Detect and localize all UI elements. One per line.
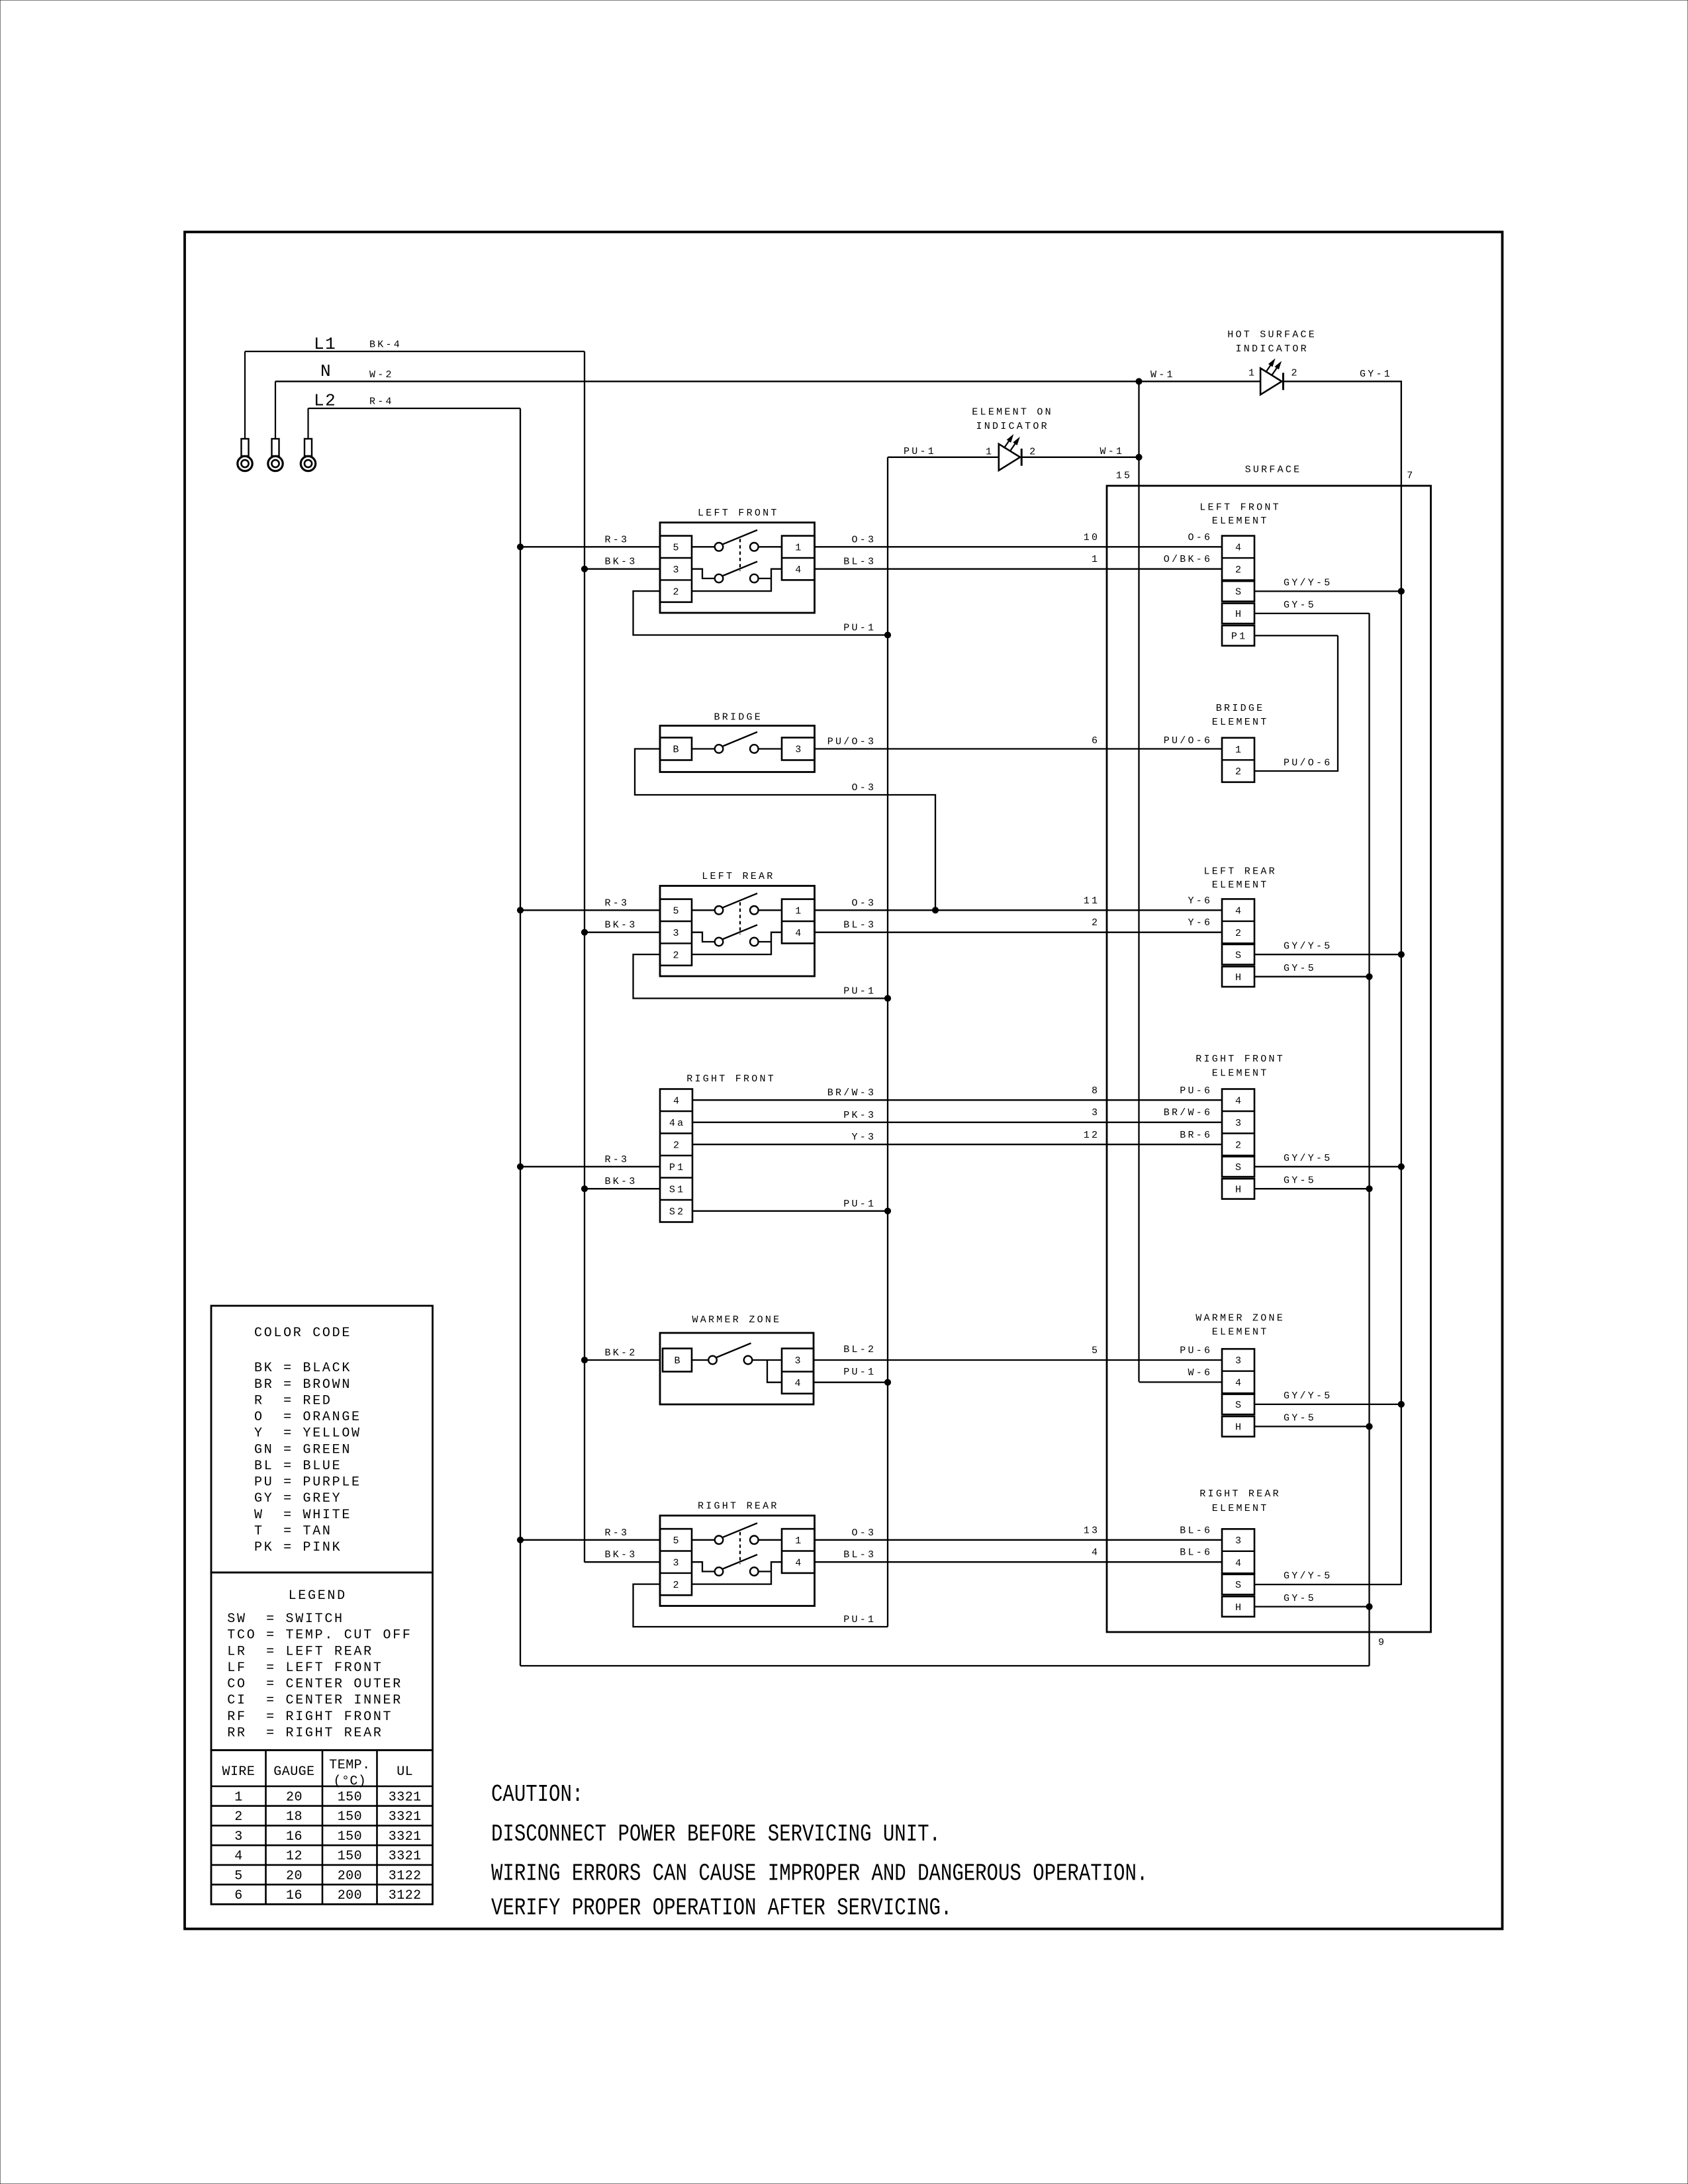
svg-text:UL: UL bbox=[397, 1764, 413, 1780]
bus PU-1 vertical bbox=[887, 457, 888, 1627]
svg-text:18: 18 bbox=[286, 1809, 303, 1825]
svg-text:11: 11 bbox=[1084, 895, 1100, 907]
switch LEFT FRONT body bbox=[660, 523, 815, 614]
junction GY/Y bus / LR S bbox=[1398, 952, 1404, 958]
junction GY/Y bus / RF S bbox=[1398, 1163, 1404, 1169]
svg-text:20: 20 bbox=[286, 1868, 303, 1884]
switch LEFT FRONT mechanical link bbox=[739, 539, 741, 570]
svg-text:RIGHT REAR: RIGHT REAR bbox=[698, 1501, 779, 1512]
svg-text:GY-5: GY-5 bbox=[1284, 963, 1316, 974]
element WARMER ZONE terminal S bbox=[1222, 1394, 1254, 1415]
svg-text:1: 1 bbox=[795, 543, 803, 554]
svg-text:5: 5 bbox=[673, 543, 681, 554]
svg-text:ELEMENT: ELEMENT bbox=[1212, 516, 1269, 527]
svg-text:W-1: W-1 bbox=[1100, 446, 1125, 457]
junction R bus / RIGHT REAR bbox=[517, 1537, 523, 1543]
svg-text:4: 4 bbox=[1092, 1547, 1100, 1559]
svg-text:S: S bbox=[1235, 950, 1243, 961]
element RIGHT REAR terminal S bbox=[1222, 1574, 1254, 1595]
bus BK-4 vertical (L1) bbox=[584, 351, 585, 1563]
svg-text:P1: P1 bbox=[1231, 631, 1248, 643]
svg-text:SW = SWITCH: SW = SWITCH bbox=[227, 1612, 344, 1627]
svg-text:R = RED: R = RED bbox=[254, 1394, 332, 1409]
svg-text:O-3: O-3 bbox=[852, 897, 876, 909]
svg-text:12: 12 bbox=[1084, 1130, 1100, 1141]
page border frame bbox=[185, 232, 1503, 1929]
svg-text:3122: 3122 bbox=[389, 1868, 422, 1884]
svg-text:S1: S1 bbox=[669, 1185, 686, 1196]
svg-text:O = ORANGE: O = ORANGE bbox=[254, 1410, 361, 1425]
svg-text:12: 12 bbox=[286, 1849, 303, 1864]
svg-text:16: 16 bbox=[286, 1829, 303, 1844]
switch LEFT FRONT terminals 5/3/2 bbox=[660, 536, 692, 602]
junction R bus / LEFT FRONT bbox=[517, 544, 523, 550]
svg-text:B: B bbox=[675, 1355, 682, 1367]
svg-text:200: 200 bbox=[338, 1868, 362, 1884]
svg-text:S: S bbox=[1235, 587, 1243, 598]
junction BK bus / LEFT REAR bbox=[581, 929, 587, 935]
svg-text:O-6: O-6 bbox=[1188, 532, 1213, 543]
svg-text:ELEMENT: ELEMENT bbox=[1212, 880, 1269, 891]
svg-text:HOT SURFACE: HOT SURFACE bbox=[1227, 330, 1317, 341]
svg-text:RF = RIGHT FRONT: RF = RIGHT FRONT bbox=[227, 1709, 393, 1725]
svg-text:R-3: R-3 bbox=[605, 1154, 630, 1165]
svg-text:PU-1: PU-1 bbox=[904, 446, 936, 457]
svg-text:PK-3: PK-3 bbox=[843, 1110, 876, 1121]
svg-text:6: 6 bbox=[234, 1888, 242, 1903]
svg-text:DISCONNECT POWER BEFORE SERVIC: DISCONNECT POWER BEFORE SERVICING UNIT. bbox=[491, 1821, 941, 1848]
svg-text:PU/O-6: PU/O-6 bbox=[1284, 758, 1333, 769]
svg-text:VERIFY PROPER OPERATION AFTER: VERIFY PROPER OPERATION AFTER SERVICING. bbox=[491, 1895, 952, 1922]
element WARMER ZONE numbered terminal block bbox=[1222, 1349, 1254, 1393]
element RIGHT REAR numbered terminal block bbox=[1222, 1529, 1254, 1573]
switch LEFT FRONT pole 1 contacts bbox=[692, 546, 715, 547]
svg-text:RR = RIGHT REAR: RR = RIGHT REAR bbox=[227, 1725, 383, 1741]
svg-text:P1: P1 bbox=[669, 1162, 686, 1173]
svg-text:3: 3 bbox=[1235, 1355, 1243, 1367]
svg-text:10: 10 bbox=[1084, 532, 1100, 543]
junction GY/Y bus / LF S bbox=[1398, 588, 1404, 594]
svg-text:2: 2 bbox=[1235, 1140, 1243, 1152]
svg-text:T = TAN: T = TAN bbox=[254, 1524, 332, 1539]
svg-text:O-3: O-3 bbox=[852, 782, 876, 794]
svg-text:4a: 4a bbox=[669, 1118, 686, 1129]
element LEFT FRONT numbered terminal block bbox=[1222, 536, 1254, 580]
junction R bus / LEFT REAR bbox=[517, 907, 523, 913]
bus GY-5 vertical bbox=[1368, 614, 1370, 1666]
svg-text:RIGHT FRONT: RIGHT FRONT bbox=[1196, 1054, 1285, 1065]
svg-text:150: 150 bbox=[338, 1849, 362, 1864]
svg-text:9: 9 bbox=[1378, 1637, 1386, 1649]
switch RIGHT REAR body bbox=[660, 1516, 815, 1606]
svg-text:ELEMENT: ELEMENT bbox=[1212, 717, 1269, 728]
svg-text:BK-4: BK-4 bbox=[369, 340, 402, 351]
switch WARMER ZONE body bbox=[660, 1333, 814, 1404]
switch BRIDGE terminal 3 bbox=[782, 738, 815, 760]
svg-text:2: 2 bbox=[673, 586, 681, 598]
svg-text:PU/O-3: PU/O-3 bbox=[827, 737, 876, 748]
svg-text:4: 4 bbox=[795, 565, 803, 576]
svg-text:3321: 3321 bbox=[389, 1809, 422, 1825]
svg-text:TEMP.: TEMP. bbox=[329, 1758, 370, 1773]
svg-text:3: 3 bbox=[795, 745, 803, 756]
wire PU-1 from bus to element-on LED bbox=[888, 457, 999, 458]
svg-text:INDICATOR: INDICATOR bbox=[976, 421, 1049, 432]
svg-text:Y-6: Y-6 bbox=[1188, 895, 1213, 907]
svg-text:R-3: R-3 bbox=[605, 1527, 630, 1539]
svg-text:W-6: W-6 bbox=[1188, 1367, 1213, 1379]
svg-text:O-3: O-3 bbox=[852, 1527, 876, 1539]
element BRIDGE numbered terminal block bbox=[1222, 738, 1254, 782]
svg-text:3: 3 bbox=[1092, 1107, 1100, 1118]
junction PU-1 bus / LEFT REAR bbox=[884, 995, 890, 1001]
svg-text:GY-5: GY-5 bbox=[1284, 1593, 1316, 1604]
wire gauge table bbox=[211, 1751, 433, 1905]
svg-text:2: 2 bbox=[1092, 917, 1100, 929]
wire W-1 from LED to W-1 bus bbox=[1021, 457, 1139, 458]
svg-text:R-3: R-3 bbox=[605, 897, 630, 909]
svg-text:S: S bbox=[1235, 1162, 1243, 1173]
svg-text:GY = GREY: GY = GREY bbox=[254, 1491, 342, 1506]
switch LEFT REAR terminals 5/3/2 bbox=[660, 899, 692, 966]
svg-text:4: 4 bbox=[1235, 1378, 1243, 1389]
svg-text:R-4: R-4 bbox=[369, 396, 394, 408]
svg-text:2: 2 bbox=[1235, 928, 1243, 939]
svg-text:ELEMENT ON: ELEMENT ON bbox=[972, 407, 1053, 418]
svg-text:4: 4 bbox=[1235, 1096, 1243, 1107]
svg-text:H: H bbox=[1235, 1185, 1243, 1196]
svg-text:6: 6 bbox=[1092, 735, 1100, 747]
terminal L2 ring lug bbox=[307, 408, 308, 439]
svg-text:BL-3: BL-3 bbox=[843, 1549, 876, 1561]
svg-text:BK-3: BK-3 bbox=[605, 1549, 637, 1561]
switch BRIDGE contacts bbox=[692, 748, 715, 749]
svg-text:BK = BLACK: BK = BLACK bbox=[254, 1361, 352, 1376]
switch LEFT FRONT terminal 2/4 link bbox=[692, 569, 782, 591]
junction GY-5 bus / WZ H bbox=[1366, 1424, 1372, 1430]
switch RIGHT REAR terminal 2/4 link bbox=[692, 1562, 782, 1584]
svg-text:W-1: W-1 bbox=[1150, 369, 1175, 381]
junction W-1/element-on bbox=[1136, 454, 1142, 460]
svg-text:2: 2 bbox=[673, 950, 681, 961]
element LEFT FRONT terminal S bbox=[1222, 581, 1254, 602]
svg-text:S: S bbox=[1235, 1580, 1243, 1591]
svg-text:BK-3: BK-3 bbox=[605, 1176, 637, 1187]
svg-text:CAUTION:: CAUTION: bbox=[491, 1781, 583, 1808]
svg-text:2: 2 bbox=[673, 1580, 681, 1591]
svg-text:5: 5 bbox=[673, 1535, 681, 1547]
svg-text:3: 3 bbox=[1235, 1535, 1243, 1547]
svg-text:200: 200 bbox=[338, 1888, 362, 1903]
svg-text:PU-1: PU-1 bbox=[843, 1367, 876, 1378]
svg-text:PU-6: PU-6 bbox=[1180, 1085, 1212, 1097]
svg-text:BR-6: BR-6 bbox=[1180, 1130, 1212, 1141]
switch LEFT REAR terminal 2/4 link bbox=[692, 933, 782, 954]
svg-text:3122: 3122 bbox=[389, 1888, 422, 1903]
element LEFT FRONT terminal P1 bbox=[1222, 625, 1254, 646]
svg-text:PU-6: PU-6 bbox=[1180, 1345, 1212, 1357]
svg-text:W = WHITE: W = WHITE bbox=[254, 1508, 352, 1523]
svg-text:WIRING ERRORS CAN CAUSE IMPROP: WIRING ERRORS CAN CAUSE IMPROPER AND DAN… bbox=[491, 1860, 1148, 1888]
svg-text:GY-5: GY-5 bbox=[1284, 1413, 1316, 1424]
svg-text:1: 1 bbox=[1248, 368, 1256, 379]
svg-text:Y-6: Y-6 bbox=[1188, 917, 1213, 929]
svg-text:4: 4 bbox=[795, 928, 803, 939]
svg-text:150: 150 bbox=[338, 1829, 362, 1844]
wire N (W-2) from terminal to W-1 junction bbox=[275, 381, 1139, 382]
wire bottom return (R bus to GY-5 bus) bbox=[520, 1665, 1370, 1666]
svg-text:3: 3 bbox=[673, 928, 681, 939]
junction PU-1 bus / WARMER ZONE bbox=[884, 1379, 890, 1385]
svg-text:PU-1: PU-1 bbox=[843, 623, 876, 634]
switch LEFT REAR body bbox=[660, 886, 815, 977]
svg-text:(°C): (°C) bbox=[334, 1774, 367, 1790]
switch BRIDGE terminal B bbox=[660, 738, 692, 760]
svg-text:3: 3 bbox=[673, 565, 681, 576]
svg-text:GY/Y-5: GY/Y-5 bbox=[1284, 1390, 1333, 1402]
switch RIGHT REAR pole 1 contacts bbox=[692, 1539, 715, 1541]
svg-text:LEFT REAR: LEFT REAR bbox=[1204, 866, 1277, 877]
svg-text:Y-3: Y-3 bbox=[852, 1132, 876, 1143]
switch WARMER ZONE terminal 4 link bbox=[767, 1360, 782, 1383]
svg-text:4: 4 bbox=[795, 1557, 803, 1569]
svg-text:H: H bbox=[1235, 972, 1243, 983]
bus R-4 vertical (L2) bbox=[520, 408, 521, 1666]
element LEFT FRONT terminal H bbox=[1222, 604, 1254, 624]
svg-text:PU-1: PU-1 bbox=[843, 986, 876, 997]
terminal N ring lug bbox=[275, 381, 276, 439]
svg-text:5: 5 bbox=[673, 906, 681, 917]
svg-text:GY/Y-5: GY/Y-5 bbox=[1284, 940, 1333, 952]
svg-text:BL = BLUE: BL = BLUE bbox=[254, 1459, 342, 1474]
switch RIGHT REAR terminals 1/4 bbox=[782, 1529, 815, 1573]
svg-text:BR = BROWN: BR = BROWN bbox=[254, 1377, 352, 1392]
svg-text:1: 1 bbox=[1092, 554, 1100, 565]
svg-text:5: 5 bbox=[1092, 1345, 1100, 1357]
svg-text:WARMER ZONE: WARMER ZONE bbox=[692, 1314, 782, 1326]
junction GY/Y bus / WZ S bbox=[1398, 1401, 1404, 1407]
svg-text:150: 150 bbox=[338, 1790, 362, 1805]
svg-text:S2: S2 bbox=[669, 1206, 686, 1218]
svg-text:BL-3: BL-3 bbox=[843, 557, 876, 568]
svg-text:GY-5: GY-5 bbox=[1284, 1175, 1316, 1187]
junction BK bus / WARMER ZONE bbox=[581, 1357, 587, 1363]
svg-text:2: 2 bbox=[673, 1140, 681, 1152]
switch WARMER ZONE contacts bbox=[692, 1359, 708, 1361]
svg-text:2: 2 bbox=[1235, 565, 1243, 576]
svg-text:SURFACE: SURFACE bbox=[1245, 465, 1302, 476]
svg-text:W-2: W-2 bbox=[369, 369, 394, 381]
junction GY-5 bus / RR H bbox=[1366, 1604, 1372, 1610]
switch LEFT FRONT pole 2 contacts bbox=[692, 569, 715, 578]
svg-text:LF = LEFT FRONT: LF = LEFT FRONT bbox=[227, 1661, 383, 1676]
svg-text:LEFT FRONT: LEFT FRONT bbox=[1199, 502, 1281, 513]
svg-text:PU-1: PU-1 bbox=[843, 1614, 876, 1625]
svg-text:16: 16 bbox=[286, 1888, 303, 1903]
svg-text:BK-2: BK-2 bbox=[605, 1347, 637, 1359]
switch WARMER ZONE terminals 3/4 bbox=[782, 1349, 814, 1394]
svg-text:GAUGE: GAUGE bbox=[273, 1764, 314, 1780]
svg-text:BRIDGE: BRIDGE bbox=[714, 712, 763, 723]
svg-text:7: 7 bbox=[1407, 471, 1415, 482]
svg-text:5: 5 bbox=[234, 1868, 242, 1884]
legend COLOR CODE box bbox=[211, 1306, 433, 1572]
svg-text:3321: 3321 bbox=[389, 1790, 422, 1805]
junction BK bus / RF bbox=[581, 1186, 587, 1192]
element RIGHT FRONT terminal S bbox=[1222, 1157, 1254, 1177]
element LEFT REAR terminal H bbox=[1222, 966, 1254, 987]
svg-text:ELEMENT: ELEMENT bbox=[1212, 1327, 1269, 1338]
junction bridge O-3 loop / LR pole 1 bbox=[932, 907, 938, 913]
switch BRIDGE body bbox=[660, 726, 815, 772]
terminal L1 ring lug bbox=[244, 351, 246, 439]
svg-text:COLOR CODE: COLOR CODE bbox=[254, 1326, 352, 1341]
svg-text:13: 13 bbox=[1084, 1525, 1100, 1536]
svg-text:8: 8 bbox=[1092, 1085, 1100, 1097]
svg-text:N: N bbox=[320, 361, 332, 381]
svg-text:BL-6: BL-6 bbox=[1180, 1525, 1212, 1536]
svg-text:GY-5: GY-5 bbox=[1284, 600, 1316, 611]
svg-text:GY/Y-5: GY/Y-5 bbox=[1284, 1570, 1333, 1582]
svg-text:WIRE: WIRE bbox=[222, 1764, 256, 1780]
element LEFT REAR numbered terminal block bbox=[1222, 899, 1254, 943]
switch LEFT REAR mechanical link bbox=[739, 902, 741, 934]
junction PU-1 bus / LEFT FRONT bbox=[884, 632, 890, 638]
svg-text:S: S bbox=[1235, 1400, 1243, 1411]
indicator LED U2 hot surface bbox=[1260, 368, 1282, 394]
element RIGHT FRONT numbered terminal block bbox=[1222, 1089, 1254, 1156]
svg-text:4: 4 bbox=[1235, 543, 1243, 554]
wire GY-1 from LED to surface pin 7 bbox=[1284, 381, 1401, 1585]
svg-text:LR = LEFT REAR: LR = LEFT REAR bbox=[227, 1644, 373, 1659]
svg-text:4: 4 bbox=[234, 1849, 242, 1864]
svg-text:R-3: R-3 bbox=[605, 534, 630, 545]
svg-text:CI = CENTER INNER: CI = CENTER INNER bbox=[227, 1693, 402, 1708]
svg-text:3321: 3321 bbox=[389, 1849, 422, 1864]
switch LEFT REAR pole 2 contacts bbox=[692, 933, 715, 942]
junction GY-5 bus / RF H bbox=[1366, 1186, 1372, 1192]
svg-text:1: 1 bbox=[795, 1535, 803, 1547]
junction PU-1 bus / RF bbox=[884, 1208, 890, 1214]
svg-text:3: 3 bbox=[795, 1355, 803, 1367]
svg-text:PK = PINK: PK = PINK bbox=[254, 1540, 342, 1555]
svg-text:O-3: O-3 bbox=[852, 534, 876, 545]
svg-text:1: 1 bbox=[234, 1790, 242, 1805]
svg-text:GY-1: GY-1 bbox=[1360, 369, 1392, 380]
svg-text:GY/Y-5: GY/Y-5 bbox=[1284, 578, 1333, 589]
switch WARMER ZONE terminal B bbox=[663, 1349, 692, 1372]
element WARMER ZONE terminal H bbox=[1222, 1416, 1254, 1437]
svg-text:2: 2 bbox=[1291, 368, 1299, 379]
wire L2 (R-4) from terminal to R bus bbox=[308, 408, 521, 409]
svg-text:BL-6: BL-6 bbox=[1180, 1547, 1212, 1559]
svg-text:BR/W-6: BR/W-6 bbox=[1164, 1107, 1213, 1118]
svg-text:Y = YELLOW: Y = YELLOW bbox=[254, 1426, 361, 1441]
svg-text:B: B bbox=[673, 745, 681, 756]
svg-text:H: H bbox=[1235, 609, 1243, 620]
svg-text:1: 1 bbox=[1235, 745, 1243, 756]
svg-text:BL-2: BL-2 bbox=[843, 1344, 876, 1355]
element LEFT REAR terminal S bbox=[1222, 944, 1254, 965]
switch RIGHT REAR mechanical link bbox=[739, 1532, 741, 1564]
svg-text:RIGHT REAR: RIGHT REAR bbox=[1199, 1488, 1281, 1500]
svg-text:4: 4 bbox=[1235, 1558, 1243, 1569]
svg-text:BR/W-3: BR/W-3 bbox=[827, 1087, 876, 1099]
junction R bus / RF bbox=[517, 1163, 523, 1169]
svg-text:INDICATOR: INDICATOR bbox=[1236, 343, 1309, 355]
svg-text:O/BK-6: O/BK-6 bbox=[1164, 554, 1213, 565]
wire L1 (BK-4) from terminal to BK bus bbox=[245, 351, 585, 352]
svg-text:CO = CENTER OUTER: CO = CENTER OUTER bbox=[227, 1677, 402, 1692]
svg-text:RIGHT FRONT: RIGHT FRONT bbox=[686, 1073, 776, 1085]
bus W-1 vertical bbox=[1138, 381, 1139, 1381]
svg-text:15: 15 bbox=[1116, 471, 1133, 482]
svg-text:3: 3 bbox=[673, 1557, 681, 1569]
svg-text:150: 150 bbox=[338, 1809, 362, 1825]
svg-text:2: 2 bbox=[234, 1809, 242, 1825]
svg-text:WARMER ZONE: WARMER ZONE bbox=[1196, 1313, 1285, 1324]
junction GY-5 bus / LR H bbox=[1366, 974, 1372, 979]
element RIGHT REAR terminal H bbox=[1222, 1596, 1254, 1617]
svg-text:LEFT REAR: LEFT REAR bbox=[702, 871, 774, 882]
svg-text:BRIDGE: BRIDGE bbox=[1216, 703, 1265, 714]
svg-text:3: 3 bbox=[1235, 1118, 1243, 1129]
switch LEFT REAR terminals 1/4 bbox=[782, 899, 815, 944]
wire W-1 to hot surface LED bbox=[1139, 381, 1261, 382]
svg-text:PU-1: PU-1 bbox=[843, 1199, 876, 1210]
svg-text:4: 4 bbox=[795, 1378, 803, 1389]
junction BK bus / LEFT FRONT bbox=[581, 566, 587, 572]
svg-text:GY/Y-5: GY/Y-5 bbox=[1284, 1153, 1333, 1164]
svg-text:2: 2 bbox=[1029, 447, 1037, 458]
svg-text:PU/O-6: PU/O-6 bbox=[1164, 735, 1213, 747]
svg-text:H: H bbox=[1235, 1602, 1243, 1614]
junction W-1/W-2 bbox=[1136, 379, 1142, 385]
svg-text:BK-3: BK-3 bbox=[605, 557, 637, 568]
element RIGHT FRONT terminal H bbox=[1222, 1179, 1254, 1199]
switch RIGHT FRONT terminal column 4/4a/2/P1/S1/S2 bbox=[660, 1089, 692, 1222]
switch LEFT REAR pole 1 contacts bbox=[692, 909, 715, 911]
legend LEGEND box bbox=[211, 1572, 433, 1751]
svg-text:BL-3: BL-3 bbox=[843, 920, 876, 931]
svg-text:20: 20 bbox=[286, 1790, 303, 1805]
svg-text:4: 4 bbox=[673, 1096, 681, 1107]
svg-text:1: 1 bbox=[795, 906, 803, 917]
svg-text:1: 1 bbox=[986, 447, 994, 458]
svg-text:PU = PURPLE: PU = PURPLE bbox=[254, 1475, 361, 1490]
svg-text:ELEMENT: ELEMENT bbox=[1212, 1503, 1269, 1514]
switch RIGHT REAR pole 2 contacts bbox=[692, 1562, 715, 1571]
svg-text:BK-3: BK-3 bbox=[605, 920, 637, 931]
svg-text:LEFT FRONT: LEFT FRONT bbox=[698, 508, 779, 519]
svg-text:GN = GREEN: GN = GREEN bbox=[254, 1442, 352, 1457]
svg-text:4: 4 bbox=[1235, 905, 1243, 917]
indicator LED U1 element on bbox=[999, 444, 1020, 471]
svg-text:ELEMENT: ELEMENT bbox=[1212, 1068, 1269, 1079]
svg-text:H: H bbox=[1235, 1422, 1243, 1433]
svg-text:TCO = TEMP. CUT OFF: TCO = TEMP. CUT OFF bbox=[227, 1628, 412, 1643]
svg-text:3: 3 bbox=[234, 1829, 242, 1844]
svg-text:3321: 3321 bbox=[389, 1829, 422, 1844]
wire P1 loop from LF element P1 to bridge element 2 bbox=[1254, 635, 1338, 636]
svg-text:2: 2 bbox=[1235, 766, 1243, 778]
switch RIGHT REAR terminals 5/3/2 bbox=[660, 1529, 692, 1595]
switch LEFT FRONT terminals 1/4 bbox=[782, 536, 815, 580]
svg-text:LEGEND: LEGEND bbox=[289, 1588, 347, 1604]
